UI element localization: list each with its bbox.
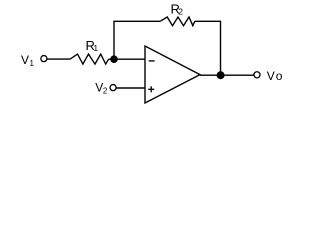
svg-text:Vo: Vo — [267, 69, 283, 83]
wire node A up — [113, 21, 115, 59]
svg-text:V: V — [21, 53, 29, 67]
op-amp inverting pin minus sign — [149, 60, 155, 62]
svg-text:1: 1 — [93, 43, 98, 53]
wire V2 to non-inverting input — [116, 87, 145, 89]
op-amp U1 — [145, 46, 200, 103]
svg-text:2: 2 — [103, 86, 108, 95]
wire R2 to top right corner — [195, 20, 221, 22]
resistor R1 — [70, 54, 108, 64]
resistor R2 — [160, 17, 195, 26]
node A junction dot — [110, 55, 118, 63]
label V1 — [21, 53, 35, 68]
wire V1 to R1 — [47, 58, 70, 60]
label R2 — [171, 2, 184, 17]
terminal V2 — [110, 85, 116, 91]
terminal V1 — [41, 56, 47, 62]
node B junction dot — [217, 71, 225, 79]
svg-text:1: 1 — [30, 59, 35, 68]
terminal Vo — [254, 72, 260, 78]
wire node A to inverting input — [114, 58, 146, 60]
svg-text:2: 2 — [178, 6, 183, 16]
wire top left to R2 — [113, 20, 160, 22]
wire R1 to node A — [109, 58, 115, 60]
wire op-amp output to node B and terminal Vo — [200, 74, 254, 76]
op-amp non-inverting pin plus sign — [148, 86, 154, 92]
label V2 — [95, 81, 108, 96]
wire down to node B — [220, 21, 222, 75]
label R1 — [86, 38, 99, 53]
